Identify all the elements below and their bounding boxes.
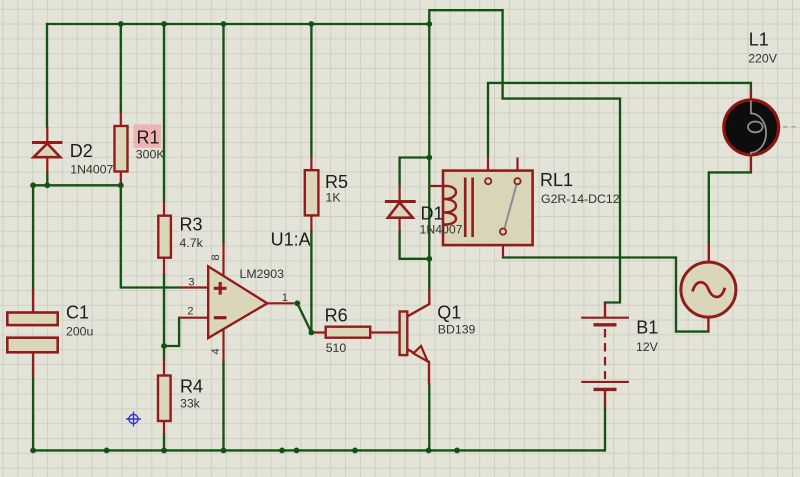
node dot bus-R5 (309, 21, 315, 27)
svg-text:33k: 33k (180, 397, 201, 411)
resistor R4 (158, 359, 171, 434)
wire bus to op-amp pin 8 (222, 24, 224, 242)
svg-text:R1: R1 (137, 128, 160, 148)
diode D1 (385, 186, 416, 232)
wire node A horizontal (33, 184, 121, 186)
wire bus to R3 (163, 24, 165, 201)
svg-text:200u: 200u (66, 324, 94, 338)
svg-text:1N4007: 1N4007 (70, 163, 113, 177)
svg-text:8: 8 (210, 254, 222, 260)
node dot bus x457 (454, 448, 460, 454)
node dot bus C1 (30, 448, 36, 454)
wire Q1 emitter to bus (428, 385, 430, 451)
AC source V1 (681, 243, 736, 332)
svg-text:R6: R6 (325, 306, 348, 326)
dashed remnant right of lamp (783, 126, 799, 128)
wire lamp net top (488, 83, 751, 155)
node dot bus-pin8 (221, 21, 227, 27)
wire bus to R5 (310, 24, 312, 156)
svg-text:R5: R5 (325, 172, 348, 192)
relay RL1 body (429, 157, 532, 258)
node dot bus right end (426, 21, 432, 27)
relay RL1 coil and contacts (444, 178, 521, 238)
svg-text:B1: B1 (636, 318, 658, 338)
svg-text:1: 1 (282, 292, 288, 304)
wire battery bottom to bus (603, 407, 606, 451)
wire bottom bus (33, 449, 604, 451)
svg-text:L1: L1 (749, 30, 769, 50)
wire relay vertical rail (428, 24, 430, 289)
svg-text:2: 2 (187, 306, 193, 318)
wire D2 to node A (46, 173, 48, 185)
node dot A D2 (44, 182, 50, 188)
node dot A R1 (118, 182, 124, 188)
node dot bus Q1 (426, 448, 432, 454)
wire C1 bottom to ground bus (32, 377, 34, 451)
wire top bus (47, 23, 429, 25)
svg-text:C1: C1 (66, 303, 89, 323)
node dot bus x296 (294, 448, 300, 454)
svg-text:RL1: RL1 (540, 170, 573, 190)
wire op-amp output diagonal (297, 303, 311, 332)
svg-text:3: 3 (188, 277, 194, 289)
svg-text:4.7k: 4.7k (180, 236, 204, 250)
wire R4 bottom (163, 434, 165, 450)
battery B1 (581, 303, 629, 407)
node dot bus R4 (161, 448, 167, 454)
resistor R1 (115, 111, 128, 185)
svg-text:R4: R4 (180, 377, 203, 397)
svg-text:R3: R3 (180, 215, 203, 235)
wire R5 bottom to node (310, 231, 312, 333)
svg-text:1K: 1K (326, 191, 342, 205)
wire left rail down to D2 (46, 24, 48, 127)
resistor R3 (158, 201, 171, 275)
transistor Q1 (400, 289, 430, 385)
wire D1 bottom link (400, 231, 429, 259)
svg-text:300K: 300K (136, 148, 166, 162)
svg-text:LM2903: LM2903 (240, 267, 285, 281)
svg-text:D2: D2 (70, 141, 93, 161)
svg-text:BD139: BD139 (438, 323, 476, 337)
node dot bus-R1 (118, 21, 124, 27)
capacitor C1 (7, 288, 57, 376)
diode D2 (32, 127, 62, 173)
wire lamp bottom to AC source (709, 171, 751, 243)
wire D1 top link (400, 158, 430, 186)
svg-text:4: 4 (210, 348, 222, 354)
svg-text:D1: D1 (421, 204, 444, 224)
wire op-amp pin 4 to bus (222, 362, 224, 450)
wire relay common to AC source bottom (503, 258, 708, 332)
wire C1 top (32, 185, 34, 288)
svg-text:1N4007: 1N4007 (420, 223, 463, 237)
wire pin 2 jog (164, 318, 179, 346)
node dot R6 junction (309, 330, 315, 336)
svg-text:220V: 220V (748, 51, 778, 65)
node dot bus x106 (104, 448, 110, 454)
node dot bus-R3 (161, 21, 167, 27)
node dot bus x355 (352, 448, 358, 454)
svg-text:510: 510 (326, 341, 347, 355)
svg-text:U1:A: U1:A (271, 230, 311, 250)
lamp L1 (724, 90, 779, 171)
node dot divider junction (161, 343, 167, 349)
node dot bus pin4 (221, 448, 227, 454)
wire R3 bottom to R4 top (163, 275, 165, 360)
node dot A left (30, 182, 36, 188)
origin marker (126, 412, 141, 427)
label R1 highlighted (133, 124, 161, 147)
wire R1 bottom to op-amp pin 3 (121, 185, 179, 287)
svg-text:Q1: Q1 (437, 303, 461, 323)
node dot bus x282 (279, 448, 285, 454)
resistor R5 (305, 156, 319, 231)
wire bus to R1 (120, 24, 122, 111)
node dot D1 top (426, 155, 432, 161)
wire top hook to battery rail (429, 10, 620, 302)
resistor R6 (311, 327, 399, 338)
svg-text:G2R-14-DC12: G2R-14-DC12 (541, 192, 620, 206)
node dot op-amp output (294, 300, 300, 306)
op-amp U1 (179, 242, 294, 362)
svg-text:12V: 12V (636, 340, 659, 354)
node dot D1 bottom (426, 256, 432, 262)
